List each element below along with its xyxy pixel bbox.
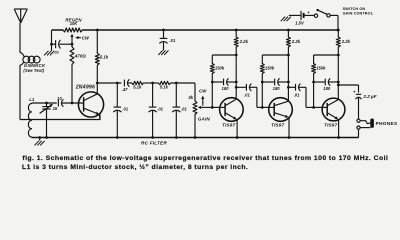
wire stage2 emitter [236, 120, 239, 139]
label 470 ohm [74, 53, 87, 58]
battery B1 1.5V [289, 11, 314, 20]
svg-text:470Ω: 470Ω [74, 53, 87, 58]
svg-text:.01: .01 [294, 93, 300, 98]
wire RC node 3 [171, 82, 195, 85]
potentiometer REGEN 10K [63, 28, 82, 40]
transistor stage4 TIS97 [322, 98, 345, 121]
wire stage3 base drop [261, 82, 264, 109]
label 2.2k stage2 [239, 39, 249, 44]
capacitor .01 coupling stage2 [235, 84, 257, 108]
label 150k stage4 [316, 65, 326, 70]
svg-text:.01: .01 [53, 49, 59, 54]
label .01 shunt 1 [122, 107, 128, 112]
svg-text:.01: .01 [157, 107, 163, 112]
wire stage3 base lead [262, 106, 274, 108]
label 180 stage2 [222, 86, 230, 91]
label 3k [188, 95, 193, 100]
label 5.1k RC1 [133, 85, 142, 90]
wire stage2 base lead [212, 106, 225, 108]
capacitor .01 regen bypass [52, 40, 73, 48]
svg-text:PHONES: PHONES [376, 121, 398, 126]
ground regen [44, 51, 54, 56]
svg-text:(See Text): (See Text) [23, 68, 44, 73]
wire emitter riser [99, 114, 101, 119]
capacitor .47 [124, 80, 129, 87]
label .01 shunt 2 [157, 107, 163, 112]
svg-text:+: + [353, 90, 356, 95]
transistor stage2 TIS97 [220, 98, 244, 122]
capacitor 2.2uF output [337, 84, 361, 120]
svg-text:RC FILTER: RC FILTER [141, 141, 167, 146]
label 5.1k RC2 [160, 85, 169, 90]
svg-text:3k: 3k [188, 95, 193, 100]
wire stage4 base lead [314, 106, 328, 108]
label .47 [122, 87, 128, 92]
resistor 5.1k RC filter 1 [132, 81, 144, 84]
resistor 2.2k stage2 [234, 29, 238, 55]
label 15 [53, 106, 58, 111]
ground battery [281, 17, 291, 22]
label 2.2 uF [362, 94, 376, 99]
label 180 stage3 [273, 86, 281, 91]
gimmick coupling capacitor (twisted coil) [20, 52, 40, 65]
label 10 [57, 96, 62, 101]
resistor 150k stage3 [260, 55, 264, 82]
svg-text:GAIN: GAIN [198, 117, 210, 122]
label CW regen [75, 35, 90, 40]
antenna [14, 9, 27, 23]
label 5.1k collector [100, 55, 109, 60]
caption line 2 [22, 163, 248, 171]
ground tank [35, 138, 45, 146]
wire stage2 collector node [212, 54, 237, 57]
svg-text:.01: .01 [244, 93, 250, 98]
label TIS97 stage4 [324, 122, 338, 127]
svg-text:180: 180 [323, 86, 331, 91]
label .01 coupling stage3 [294, 93, 300, 98]
capacitor .01 RC filter shunt 2 [149, 83, 157, 139]
resistor 470 ohm [70, 40, 74, 103]
svg-text:CW: CW [199, 89, 207, 94]
svg-text:GAIN CONTROL: GAIN CONTROL [343, 11, 374, 15]
capacitor 180 stage3 [261, 79, 290, 86]
svg-text:CW: CW [82, 35, 90, 40]
svg-text:.01: .01 [170, 38, 176, 43]
label .01 supply bypass [170, 38, 176, 43]
wire stage2 collector riser [235, 55, 237, 99]
wire stage4 collector node [314, 54, 340, 57]
label GIMMICK [23, 63, 46, 73]
svg-text:2N4996: 2N4996 [75, 84, 95, 90]
label 1.5V [295, 20, 305, 25]
inductor L1 [28, 103, 31, 138]
capacitor .01 RC filter shunt 1 [114, 83, 122, 139]
svg-text:5.1k: 5.1k [133, 85, 142, 90]
wire .47 to R [128, 82, 132, 84]
resistor 2.2k stage3 [286, 29, 290, 55]
svg-text:L1: L1 [29, 97, 35, 102]
wire stage3 collector riser [287, 55, 289, 101]
label .01 coupling stage2 [244, 93, 250, 98]
svg-text:L1 is 3 turns Mini-ductor stoc: L1 is 3 turns Mini-ductor stock, ½” diam… [22, 163, 248, 171]
variable capacitor 15pF (tuning) [40, 103, 53, 138]
wire stage3 collector node [262, 54, 290, 57]
svg-text:2.2k: 2.2k [291, 39, 301, 44]
wire coupling to stage3 base [257, 106, 262, 108]
svg-text:fig. 1. Schematic of the low-v: fig. 1. Schematic of the low-voltage sup… [22, 155, 388, 162]
svg-text:.47: .47 [122, 87, 128, 92]
svg-text:10: 10 [57, 96, 62, 101]
ground supply bypass [158, 50, 168, 55]
svg-text:TIS97: TIS97 [324, 122, 338, 127]
wire tank top [32, 102, 57, 105]
capacitor .01 RC filter shunt 3 [173, 83, 181, 139]
resistor 5.1k RC filter 2 [158, 81, 170, 84]
svg-text:TIS97: TIS97 [271, 122, 285, 127]
label TIS97 stage2 [222, 122, 236, 127]
capacitor .01 supply bypass [160, 29, 168, 51]
wire base lead Q1 [62, 102, 84, 105]
svg-text:2.2 µF: 2.2 µF [362, 94, 376, 99]
label PHONES [376, 121, 398, 126]
label + polarity [353, 90, 356, 95]
potentiometer GAIN 3k [193, 83, 197, 139]
svg-text:2.2k: 2.2k [341, 39, 351, 44]
label GAIN [198, 117, 210, 122]
wire stage4 base drop [312, 82, 315, 109]
svg-text:180: 180 [273, 86, 281, 91]
caption line 1 [22, 155, 388, 162]
label 2N4996 [75, 84, 95, 90]
svg-text:5.1k: 5.1k [100, 55, 109, 60]
svg-text:2.2k: 2.2k [239, 39, 249, 44]
capacitor 10 [58, 100, 63, 107]
capacitor 180 stage4 [312, 79, 339, 86]
resistor 5.1k (Q1 collector load) [95, 29, 99, 94]
switch S1 on gain control [314, 9, 339, 32]
label L1 [29, 97, 35, 102]
svg-text:150k: 150k [316, 65, 326, 70]
gain pot wiper [198, 106, 213, 109]
label CW gain [199, 89, 207, 106]
wire emitter return (horizontal) [20, 119, 100, 121]
label TIS97 stage3 [271, 122, 285, 127]
phone jack J1 [357, 119, 374, 138]
capacitor .01 coupling stage3 [287, 84, 306, 108]
label 150k stage3 [265, 65, 275, 70]
svg-text:10K: 10K [70, 21, 79, 26]
label REGEN 10K [65, 18, 82, 26]
wire stage3 emitter [288, 118, 291, 139]
svg-text:150k: 150k [265, 65, 275, 70]
wire antenna lead [19, 23, 21, 52]
svg-text:150k: 150k [215, 65, 225, 70]
svg-text:180: 180 [222, 86, 230, 91]
transistor stage3 TIS97 [269, 98, 293, 122]
wire coupling to stage4 base [306, 106, 314, 108]
label + battery [307, 10, 310, 15]
svg-text:.01: .01 [122, 107, 128, 112]
capacitor 180 stage2 [211, 79, 238, 86]
wire RC node 2 [143, 82, 158, 85]
wire bottom ground rail [32, 136, 359, 139]
wire pot left to ground [50, 30, 53, 51]
resistor 2.2k stage4 [336, 29, 340, 55]
resistor 150k stage4 [312, 55, 316, 82]
wire stage4 collector riser [337, 55, 339, 99]
svg-text:.01: .01 [181, 107, 187, 112]
wire antenna to emitter (left vertical) [19, 65, 21, 119]
label 2.2k stage4 [341, 39, 351, 44]
label 150k stage2 [215, 65, 225, 70]
label .01 shunt 3 [181, 107, 187, 112]
label RC FILTER [141, 141, 167, 146]
wire top supply rail [52, 29, 339, 31]
wire stage4 emitter [337, 120, 340, 139]
svg-text:15: 15 [53, 106, 58, 111]
wire stage2 base drop [211, 82, 214, 109]
wire quench/RC filter line [97, 82, 121, 85]
svg-text:5.1k: 5.1k [160, 85, 169, 90]
svg-text:TIS97: TIS97 [222, 122, 236, 127]
label 2.2k stage3 [291, 39, 301, 44]
transistor Q1 2N4996 [78, 92, 103, 120]
svg-text:1.5V: 1.5V [295, 20, 305, 25]
label 180 stage4 [323, 86, 331, 91]
label .01 regen [53, 49, 59, 54]
resistor 150k stage2 [210, 55, 214, 82]
label SWITCH ON GAIN CONTROL [343, 7, 374, 15]
